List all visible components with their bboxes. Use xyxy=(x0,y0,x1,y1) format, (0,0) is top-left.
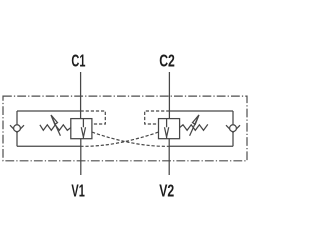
svg-text:C1: C1 xyxy=(71,52,85,71)
pilot line: cross pilot from right valve to V1 line (dashed) xyxy=(81,132,159,146)
spring left valve xyxy=(40,125,71,131)
port label V1 xyxy=(71,182,84,201)
svg-text:C2: C2 xyxy=(159,51,175,71)
wire: left check branch bottom xyxy=(17,145,81,147)
adjustment arrow left xyxy=(51,115,60,136)
check valve CV2 ball xyxy=(230,125,237,132)
adjustment arrow right xyxy=(190,115,199,136)
counterbalance valve body left xyxy=(71,119,92,139)
enclosure boundary (chain-dotted envelope) xyxy=(3,96,247,161)
pilot line: right valve internal pilot loop (dashed) xyxy=(145,111,170,124)
wire: left check branch top xyxy=(17,110,81,112)
wire: right check branch bottom xyxy=(169,145,233,147)
port label V2 xyxy=(159,181,174,201)
wire: right check branch top xyxy=(169,110,233,112)
wire: left check branch vertical xyxy=(16,111,18,146)
check valve CV1 ball xyxy=(14,125,21,132)
svg-text:V1: V1 xyxy=(71,182,84,201)
wire: V1 port line xyxy=(80,139,82,175)
wire: C1 port line xyxy=(80,72,82,119)
check valve CV2 seat xyxy=(226,125,240,132)
counterbalance valve body right xyxy=(159,119,180,139)
check valve CV1 seat xyxy=(10,125,24,132)
svg-text:V2: V2 xyxy=(159,181,174,201)
pilot line: left valve internal pilot loop (dashed) xyxy=(81,111,106,124)
wire: right check branch vertical xyxy=(232,111,234,146)
port label C1 xyxy=(71,52,85,71)
port label C2 xyxy=(159,51,175,71)
flow arrow inside right valve xyxy=(165,119,169,139)
wire: V2 port line xyxy=(168,139,170,175)
wire: C2 port line xyxy=(168,72,170,119)
pilot line: cross pilot from left valve to V2 line (dashed) xyxy=(92,132,169,146)
flow arrow inside left valve xyxy=(81,119,85,139)
spring right valve xyxy=(180,124,208,130)
